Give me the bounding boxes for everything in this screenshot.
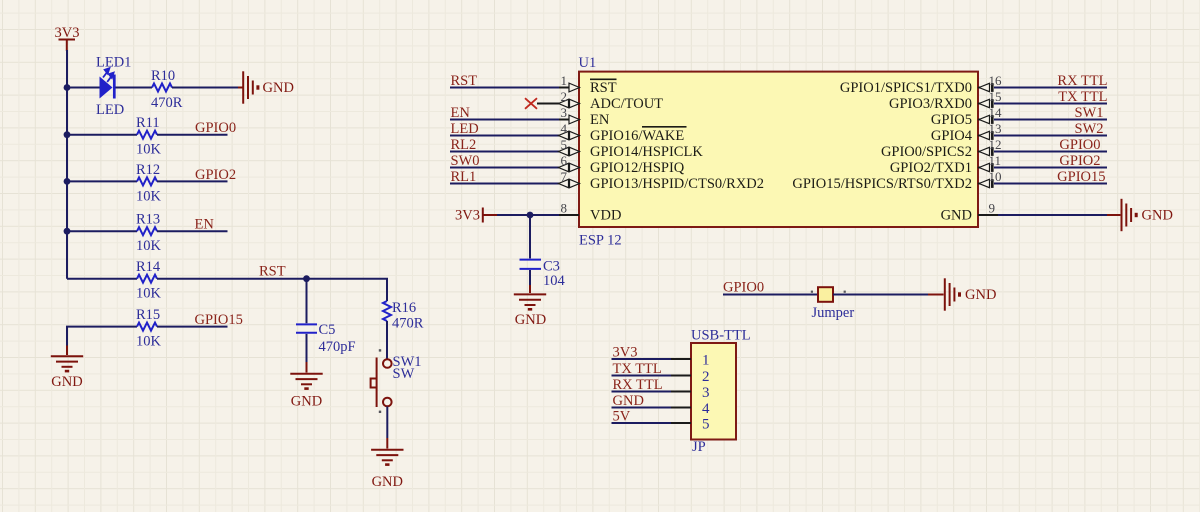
capacitor C3: [520, 260, 542, 269]
pin 5 U1: [559, 137, 580, 156]
svg-text:11: 11: [989, 153, 1002, 168]
wire GND to R15: [67, 327, 137, 346]
pin 5 JP: [671, 417, 710, 433]
pin name EN: [590, 112, 610, 128]
svg-text:GPIO3/RXD0: GPIO3/RXD0: [889, 96, 972, 112]
svg-text:2: 2: [561, 89, 568, 104]
svg-text:GPIO0: GPIO0: [723, 280, 764, 296]
svg-text:R15: R15: [136, 307, 160, 323]
wire pin 16 to net RX TTL: [994, 87, 1107, 89]
svg-text:16: 16: [989, 73, 1003, 88]
wire net RL1 to pin 7: [450, 183, 559, 185]
svg-text:470pF: 470pF: [319, 339, 356, 355]
pin 10 U1: [978, 169, 1002, 188]
wire net 3V3 to JP pin 1: [612, 358, 672, 360]
wire net TX TTL to JP pin 2: [612, 375, 672, 377]
svg-text:RST: RST: [451, 73, 478, 89]
junction rail-R12: [64, 178, 71, 185]
svg-text:R12: R12: [136, 162, 160, 178]
svg-text:104: 104: [543, 273, 566, 289]
svg-text:470R: 470R: [151, 95, 183, 111]
junction VDD-C3: [527, 212, 534, 219]
ground GND (LED): [243, 71, 294, 103]
junction rail-R13: [64, 228, 71, 235]
pin 9 U1: [978, 201, 998, 216]
svg-text:ESP 12: ESP 12: [579, 233, 622, 249]
wire pin 11 to net GPIO2: [994, 167, 1107, 169]
svg-text:TX TTL: TX TTL: [613, 361, 662, 377]
svg-text:GPIO2: GPIO2: [1059, 153, 1100, 169]
svg-text:GPIO2: GPIO2: [195, 167, 236, 183]
svg-text:10K: 10K: [136, 334, 162, 350]
svg-text:GPIO16/WAKE: GPIO16/WAKE: [590, 128, 684, 144]
pin 8 U1: [559, 201, 579, 216]
wire jumper to GND: [833, 294, 928, 296]
svg-text:GPIO12/HSPIQ: GPIO12/HSPIQ: [590, 160, 685, 176]
wire net EN to pin 3: [450, 119, 559, 121]
svg-text:GPIO4: GPIO4: [931, 128, 973, 144]
pin 3 U1: [559, 105, 580, 124]
wire rail to R11: [67, 134, 137, 136]
svg-text:RST: RST: [259, 264, 286, 280]
connector JP body: [691, 343, 736, 440]
ground GND (C5): [290, 374, 322, 410]
svg-text:10K: 10K: [136, 286, 162, 302]
svg-text:3V3: 3V3: [455, 208, 480, 224]
svg-text:RST: RST: [590, 80, 617, 96]
svg-text:3: 3: [702, 385, 710, 401]
pin 16 U1: [978, 73, 1002, 92]
wire rail to LED: [67, 87, 101, 89]
pin 15 U1: [978, 89, 1002, 108]
ground GND (jumper): [945, 278, 997, 310]
wire pin 13 to net SW2: [994, 135, 1107, 137]
pin 2 U1: [537, 89, 580, 108]
svg-text:9: 9: [989, 201, 996, 216]
wire pin 12 to net GPIO0: [994, 151, 1107, 153]
resistor R10: [152, 84, 172, 92]
svg-text:3V3: 3V3: [613, 345, 638, 361]
junction RST-C5: [303, 275, 310, 282]
switch SW1: [371, 349, 392, 413]
svg-text:R14: R14: [136, 259, 161, 275]
svg-text:3: 3: [561, 105, 568, 120]
svg-text:2: 2: [702, 369, 710, 385]
wire R13 to net: [157, 230, 228, 232]
wire pin 15 to net TX TTL: [994, 103, 1107, 105]
wire net LED to pin 4: [450, 135, 559, 137]
resistor R14: [137, 275, 157, 283]
svg-text:VDD: VDD: [590, 208, 621, 224]
ground GND (C3): [514, 294, 546, 328]
svg-text:GPIO2/TXD1: GPIO2/TXD1: [890, 160, 972, 176]
no-ERC marker pin 2: [525, 98, 537, 109]
svg-text:10K: 10K: [136, 142, 162, 158]
wire net GND to JP pin 4: [612, 407, 672, 409]
svg-text:SW2: SW2: [1075, 121, 1104, 137]
svg-text:6: 6: [561, 153, 568, 168]
svg-text:TX TTL: TX TTL: [1058, 89, 1107, 105]
svg-text:R13: R13: [136, 212, 160, 228]
wire 3V3 rail: [66, 50, 68, 279]
wire RST to C5: [306, 279, 308, 324]
ground GND (R15): [51, 356, 83, 390]
wire GPIO0 to jumper: [723, 294, 818, 296]
svg-text:R16: R16: [392, 300, 416, 316]
svg-text:GND: GND: [1142, 208, 1173, 224]
svg-text:R10: R10: [151, 68, 175, 84]
pin name GPIO14/HSPICLK: [590, 144, 703, 160]
svg-text:RX TTL: RX TTL: [613, 377, 663, 393]
wire R16 to SW1: [386, 321, 388, 359]
pin 1 JP: [671, 353, 710, 369]
svg-text:7: 7: [561, 169, 568, 184]
pin 3 JP: [671, 385, 710, 401]
svg-text:R11: R11: [136, 115, 160, 131]
wire LED to R10: [116, 87, 153, 89]
capacitor C5: [296, 324, 317, 332]
svg-text:GPIO15: GPIO15: [1057, 169, 1105, 185]
resistor R13: [137, 227, 157, 235]
pin name GPIO16/WAKE: [590, 127, 687, 144]
wire R10 to GND: [172, 87, 238, 89]
svg-text:5: 5: [702, 417, 710, 433]
svg-text:RL1: RL1: [451, 169, 477, 185]
op IC U1 body: [579, 72, 978, 227]
wire net RST to pin 1: [450, 87, 559, 89]
wire rail corner to R14: [67, 278, 137, 280]
svg-text:GPIO14/HSPICLK: GPIO14/HSPICLK: [590, 144, 703, 160]
svg-text:8: 8: [561, 201, 568, 216]
wire pin 14 to net SW1: [994, 119, 1107, 121]
wire VDD to C3: [529, 215, 531, 258]
svg-text:EN: EN: [451, 105, 471, 121]
svg-text:GPIO5: GPIO5: [931, 112, 972, 128]
svg-text:1: 1: [702, 353, 710, 369]
wire net RL2 to pin 5: [450, 151, 559, 153]
wire C3 to GND: [529, 270, 531, 285]
power 3V3 (VDD): [455, 208, 497, 224]
pin 13 U1: [978, 121, 1002, 140]
pin 14 U1: [978, 105, 1002, 124]
pin 6 U1: [559, 153, 580, 172]
svg-text:GPIO15: GPIO15: [195, 312, 243, 328]
svg-text:SW1: SW1: [1075, 105, 1104, 121]
wire pin 9 to GND: [998, 214, 1107, 216]
pin 12 U1: [978, 137, 1002, 156]
wire net RX TTL to JP pin 3: [612, 391, 672, 393]
resistor R16: [383, 301, 391, 321]
wire pin 10 to net GPIO15: [994, 183, 1107, 185]
ground GND (pin 9): [1122, 199, 1173, 231]
junction rail-R11: [64, 131, 71, 138]
wire R14 to R16 corner (net RST): [157, 279, 387, 301]
svg-text:470R: 470R: [392, 316, 424, 332]
wire net 5V to JP pin 5: [612, 422, 672, 424]
svg-text:SW: SW: [393, 366, 415, 382]
svg-text:RX TTL: RX TTL: [1057, 73, 1107, 89]
wire rail to R13: [67, 230, 137, 232]
wire R12 to net: [157, 180, 228, 182]
svg-text:14: 14: [989, 105, 1003, 120]
wire 3V3 to VDD: [497, 214, 559, 216]
pin 4 U1: [559, 121, 580, 140]
svg-text:GND: GND: [515, 312, 546, 328]
svg-text:GND: GND: [372, 474, 403, 490]
pin 7 U1: [559, 169, 580, 188]
svg-text:GND: GND: [291, 394, 322, 410]
resistor R12: [137, 177, 157, 185]
svg-text:RL2: RL2: [451, 137, 477, 153]
svg-text:GND: GND: [941, 208, 972, 224]
svg-text:GPIO15/HSPICS/RTS0/TXD2: GPIO15/HSPICS/RTS0/TXD2: [792, 176, 972, 192]
resistor R11: [137, 131, 157, 139]
svg-text:JP: JP: [692, 439, 706, 455]
svg-text:USB-TTL: USB-TTL: [691, 328, 751, 344]
svg-text:13: 13: [989, 121, 1002, 136]
svg-text:GPIO1/SPICS1/TXD0: GPIO1/SPICS1/TXD0: [840, 80, 972, 96]
svg-text:4: 4: [561, 121, 568, 136]
jumper JP1: [811, 287, 846, 302]
ground GND (SW1): [371, 450, 403, 490]
pin 2 JP: [671, 369, 710, 385]
wire R15 to net: [157, 326, 228, 328]
svg-text:C5: C5: [319, 322, 336, 338]
svg-text:10K: 10K: [136, 188, 162, 204]
pin name ADC/TOUT: [590, 96, 663, 112]
svg-text:5V: 5V: [613, 409, 631, 425]
pin 4 JP: [671, 401, 710, 417]
power 3V3 top: [55, 25, 80, 51]
svg-text:GPIO0: GPIO0: [1059, 137, 1100, 153]
svg-text:15: 15: [989, 89, 1002, 104]
svg-text:5: 5: [561, 137, 568, 152]
pin name RST: [590, 79, 617, 96]
LED LED1: [100, 67, 116, 99]
svg-text:GPIO0/SPICS2: GPIO0/SPICS2: [881, 144, 972, 160]
svg-text:GND: GND: [613, 393, 644, 409]
resistor R15: [137, 323, 157, 331]
svg-text:10: 10: [989, 169, 1002, 184]
svg-text:Jumper: Jumper: [812, 305, 855, 321]
svg-text:GPIO13/HSPID/CTS0/RXD2: GPIO13/HSPID/CTS0/RXD2: [590, 176, 764, 192]
wire C5 to GND: [306, 334, 308, 362]
wire R11 to net: [157, 134, 228, 136]
pin 1 U1: [559, 73, 580, 92]
svg-text:10K: 10K: [136, 238, 162, 254]
svg-text:GND: GND: [263, 80, 294, 96]
svg-text:GND: GND: [51, 374, 82, 390]
svg-text:LED1: LED1: [96, 55, 131, 71]
svg-text:LED: LED: [96, 102, 124, 118]
svg-text:GND: GND: [965, 287, 996, 303]
svg-text:1: 1: [561, 73, 568, 88]
svg-text:GPIO0: GPIO0: [195, 120, 236, 136]
svg-text:U1: U1: [579, 55, 597, 71]
wire SW1 to GND: [386, 407, 388, 439]
pin name GPIO12/HSPIQ: [590, 160, 685, 176]
pin 11 U1: [978, 153, 1001, 172]
svg-text:EN: EN: [590, 112, 610, 128]
junction rail-LED: [64, 84, 71, 91]
wire net SW0 to pin 6: [450, 167, 559, 169]
svg-text:LED: LED: [451, 121, 479, 137]
svg-text:ADC/TOUT: ADC/TOUT: [590, 96, 663, 112]
svg-text:12: 12: [989, 137, 1002, 152]
svg-text:4: 4: [702, 401, 710, 417]
pin name GPIO13/HSPID/CTS0/RXD2: [590, 176, 764, 192]
svg-text:SW0: SW0: [451, 153, 480, 169]
wire rail to R12: [67, 180, 137, 182]
svg-text:EN: EN: [195, 217, 215, 233]
